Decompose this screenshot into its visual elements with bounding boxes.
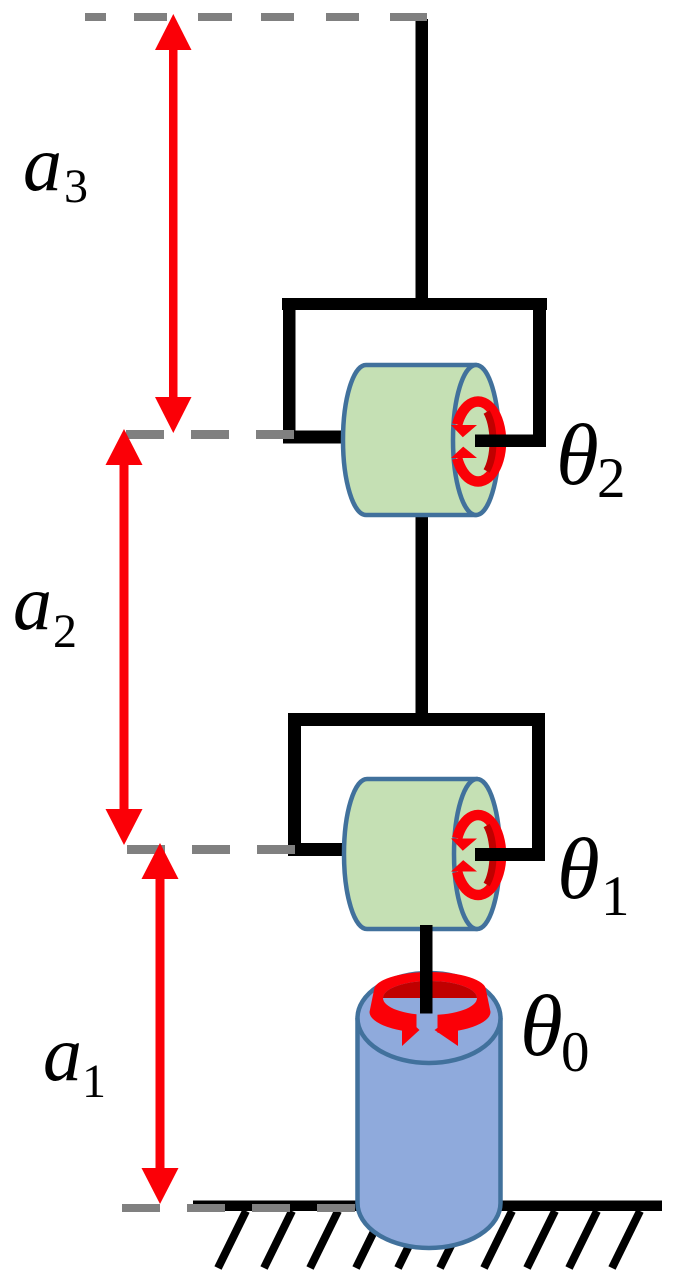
wire link1 (vertical link from joint 1 into base) xyxy=(420,925,433,1014)
svg-text:θ: θ xyxy=(556,406,599,503)
dimension arrow a2 xyxy=(106,429,143,845)
rotation arrow theta1 (red ring) xyxy=(451,815,501,895)
dashed reference line (joint 2 level) xyxy=(126,430,294,439)
svg-text:3: 3 xyxy=(64,160,88,213)
joint 1 axle stub (black, over ring) xyxy=(475,848,545,861)
rotation arrow theta2 (red ring) xyxy=(451,402,501,482)
svg-text:a: a xyxy=(23,120,62,207)
rotation arrow theta0 (red band around base top) xyxy=(370,972,491,1046)
joint 1 cylinder (revolute, horizontal) xyxy=(344,779,500,929)
dashed reference line (joint 1 level) xyxy=(127,845,295,854)
dimension arrow a1 xyxy=(142,843,179,1204)
svg-text:θ: θ xyxy=(557,820,600,917)
dashed reference line (ground level) xyxy=(122,1204,355,1212)
svg-text:0: 0 xyxy=(561,1021,590,1084)
bracket of joint 1 (yoke) xyxy=(288,713,545,861)
wire link2 (vertical link between joint 2 and joint 1) xyxy=(416,510,429,717)
svg-text:a: a xyxy=(13,559,52,646)
svg-text:a: a xyxy=(43,1010,82,1097)
base cylinder (vertical, joint 0) xyxy=(358,973,501,1248)
joint 2 cylinder (revolute, horizontal) xyxy=(343,365,499,515)
svg-text:2: 2 xyxy=(53,605,77,658)
wire link3 (vertical link above joint 2) xyxy=(416,19,429,307)
dimension arrow a3 xyxy=(155,14,192,433)
svg-text:θ: θ xyxy=(520,977,563,1074)
svg-text:2: 2 xyxy=(597,447,626,510)
dashed reference line (end-effector level, top) xyxy=(85,13,427,21)
svg-text:1: 1 xyxy=(601,865,630,928)
ground xyxy=(193,1201,662,1269)
bracket of joint 2 (yoke) xyxy=(282,298,547,447)
svg-text:1: 1 xyxy=(82,1055,106,1108)
joint 2 axle stub (black, over ring) xyxy=(475,435,546,448)
